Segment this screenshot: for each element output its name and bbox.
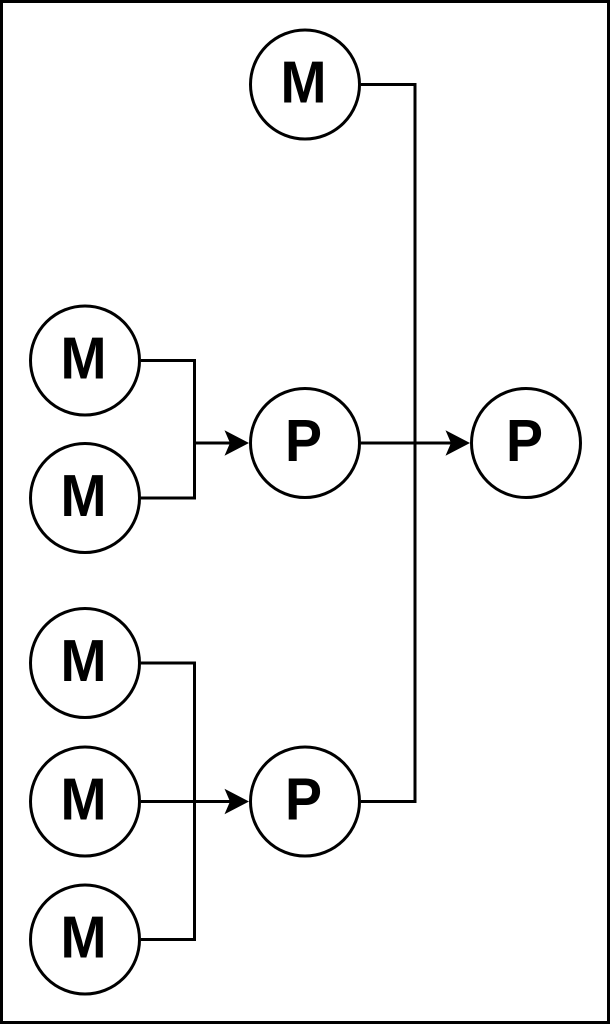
svg-text:P: P — [285, 408, 322, 474]
wire: M3 and M5 joined to vertical bus at x=194.5 — [141, 663, 195, 940]
svg-text:M: M — [61, 326, 107, 392]
node P3 (bottom process) — [251, 747, 360, 856]
node M0 (top machine) — [251, 30, 360, 139]
wire: P1 to P2 — [361, 442, 452, 445]
wire: node M0 right, down and into node P3 (elbow via x=415) — [361, 85, 415, 802]
arrowhead into P1 — [225, 430, 250, 456]
svg-text:M: M — [61, 905, 107, 971]
node M5 — [31, 885, 140, 994]
wire: M1 and M2 joined to vertical bus at x=194.5 — [141, 361, 195, 499]
svg-text:P: P — [285, 767, 322, 833]
node M2 — [31, 444, 140, 553]
arrowhead into P2 — [446, 430, 471, 456]
node M3 — [31, 609, 140, 718]
wire: bus1 to node P1 — [195, 442, 232, 445]
node M1 — [31, 306, 140, 415]
node M4 — [31, 747, 140, 856]
svg-text:P: P — [506, 408, 543, 474]
svg-text:M: M — [61, 628, 107, 694]
arrowhead into P3 — [225, 789, 250, 815]
node P2 (right process) — [472, 389, 581, 498]
svg-text:M: M — [281, 50, 327, 116]
node P1 (middle process) — [251, 389, 360, 498]
wire: M4 through bus2 to node P3 — [141, 800, 231, 803]
svg-text:M: M — [61, 463, 107, 529]
svg-text:M: M — [61, 767, 107, 833]
